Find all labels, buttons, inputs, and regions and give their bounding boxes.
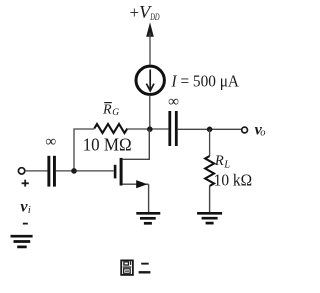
caption figure-two glyph TU [121,260,133,275]
transistor M1 source arrow [136,180,147,188]
svg-text:∞: ∞ [46,134,57,150]
node output junction [207,127,213,133]
svg-text:G: G [112,108,119,118]
current source I1 [136,66,164,94]
svg-text:∞: ∞ [168,94,179,110]
svg-text:DD: DD [150,13,160,23]
wire gate node vertical riser [74,129,94,171]
wire input terminal to cap [25,170,48,172]
ground source [136,212,160,215]
node gate junction [71,168,77,174]
capacitor C2 output [168,111,171,146]
transistor M1 gate bar [114,165,117,179]
svg-text:i: i [28,205,31,216]
wire output node to RL [209,129,211,156]
label plus [22,182,29,184]
svg-text:I = 500 μA: I = 500 μA [171,71,240,90]
svg-text:o: o [260,128,265,139]
wire VDD supply arrow [146,22,154,37]
label RG with overline [104,102,112,104]
wire cap to output terminal [178,128,242,130]
wire current source to drain node [149,95,151,129]
resistor RL [205,156,214,186]
svg-text:10 MΩ: 10 MΩ [83,134,132,154]
transistor M1 channel bar [120,158,123,186]
wire cap to gate [56,170,114,172]
svg-text:+V: +V [130,2,153,22]
svg-text:R: R [214,153,224,169]
caption figure-two glyph ER [141,263,149,265]
wire source to ground [148,184,150,212]
svg-text:L: L [223,159,230,170]
label minus [23,223,28,225]
ground input [11,235,33,238]
ground RL [197,212,222,215]
wire RG to drain junction [127,128,168,130]
wire source lead [123,183,149,185]
resistor RG [94,124,127,133]
wire drain lead [123,129,150,159]
svg-text:10 kΩ: 10 kΩ [214,171,253,190]
wire RL to ground [209,186,211,213]
terminal vo [242,127,248,133]
node drain junction [147,126,153,132]
capacitor C1 input [47,156,50,187]
svg-text:R: R [102,103,112,118]
terminal vi input [18,168,24,174]
